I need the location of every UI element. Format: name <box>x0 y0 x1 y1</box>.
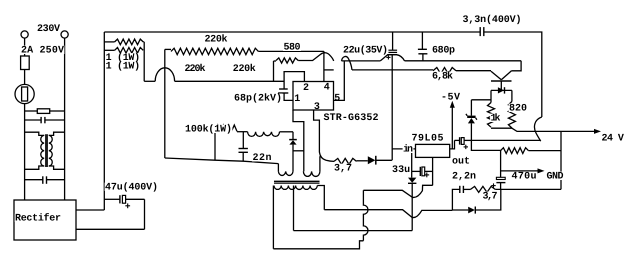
wire AC L rail <box>24 38 26 56</box>
diode snubber <box>289 139 297 141</box>
svg-text:47u(400V): 47u(400V) <box>105 182 158 194</box>
wire zener bottom drop <box>471 140 500 150</box>
resistor 6,8k <box>433 68 456 74</box>
wire pin5 <box>334 61 345 101</box>
transformer secondary <box>274 186 317 190</box>
wire comp row <box>342 60 381 62</box>
capacitor 68p 2kV <box>279 88 288 90</box>
svg-text:3,3n(400V): 3,3n(400V) <box>463 14 522 26</box>
svg-text:33u: 33u <box>392 165 410 176</box>
svg-text:68p(2kV): 68p(2kV) <box>234 93 282 105</box>
resistor 3,7 right <box>463 188 470 190</box>
resistor filter (box) <box>25 110 38 112</box>
diode in net <box>368 156 376 164</box>
resistor 3,7 left <box>334 158 357 164</box>
label 580 <box>283 43 301 51</box>
wire secondary left end <box>272 186 274 249</box>
capacitor 680p <box>421 32 423 49</box>
wire 47u return <box>144 199 146 229</box>
arrow -5V <box>450 101 455 108</box>
label 33u <box>392 165 411 173</box>
arrow GND <box>538 168 545 173</box>
capacitor X2 <box>25 179 43 181</box>
wire AC N rail <box>64 38 66 200</box>
wire in net <box>392 148 416 150</box>
wire 22n top lead <box>242 132 244 149</box>
label 2A 250V <box>21 46 65 54</box>
wire top bus right <box>484 32 542 117</box>
wire row2 <box>324 210 452 218</box>
wire AC L rail lower <box>24 104 26 200</box>
capacitor 33u <box>412 170 421 172</box>
wire 100k to coil <box>237 131 248 133</box>
svg-text:2: 2 <box>303 83 309 94</box>
wire row2 diode lead <box>452 209 468 211</box>
svg-text:100k(1W): 100k(1W) <box>185 124 232 136</box>
svg-text:3,7: 3,7 <box>483 192 498 203</box>
wire pin1 staircase <box>293 110 304 171</box>
svg-text:1: 1 <box>294 94 300 105</box>
label 220k top <box>204 35 228 43</box>
transistor Q1 <box>491 71 501 79</box>
choke CM core <box>45 134 47 167</box>
wire out stub <box>450 140 455 149</box>
wire 100k left lead <box>214 131 216 160</box>
wire in vert <box>411 149 413 172</box>
resistor 1 (1W) upper <box>104 41 114 43</box>
wire 22u to in net <box>391 55 393 161</box>
label 24 V <box>601 134 624 142</box>
label 3,7 right <box>482 192 498 200</box>
label STR-G6352 <box>323 113 379 121</box>
wire riser <box>363 190 368 241</box>
wire 33u gnd vert <box>432 157 434 185</box>
resistor 220k x2 <box>171 48 258 54</box>
wire snubber right <box>495 188 561 190</box>
svg-text:22n: 22n <box>253 153 272 164</box>
svg-text:470u: 470u <box>512 172 537 183</box>
svg-text:-5V: -5V <box>441 93 460 104</box>
resistor 1k <box>488 103 495 128</box>
wire 22n bottom lead <box>242 152 244 161</box>
svg-text:220k: 220k <box>233 63 256 75</box>
transformer core <box>274 180 320 182</box>
wire DC+ rail <box>103 32 105 210</box>
inductor coil <box>248 132 280 137</box>
svg-text:220k: 220k <box>185 63 206 75</box>
label 220k mid a <box>184 64 206 72</box>
label 79L05 <box>411 134 444 142</box>
wire diode branch <box>293 150 304 152</box>
svg-text:230V: 230V <box>37 24 60 35</box>
choke CM top stubs <box>25 132 45 135</box>
capacitor X1 <box>25 119 41 121</box>
plus 470u <box>491 185 495 187</box>
capacitor 47u 400V <box>104 198 120 200</box>
resistor 100k 1W <box>215 125 237 131</box>
capacitor 2,2n <box>459 186 461 193</box>
svg-text:5: 5 <box>334 94 340 105</box>
label 3,3n(400V) <box>462 15 522 23</box>
svg-text:Rectifer: Rectifer <box>15 213 61 225</box>
svg-text:STR-G6352: STR-G6352 <box>324 113 379 124</box>
wire pin2 <box>284 72 304 89</box>
wire fuse to lamp <box>24 70 26 85</box>
label out <box>452 157 471 165</box>
wire loop sides <box>490 90 492 102</box>
svg-text:2A 250V: 2A 250V <box>21 46 64 57</box>
capacitor out elec <box>455 139 460 141</box>
wire 220k to pin4 <box>258 50 324 52</box>
wire row2 right <box>475 189 501 210</box>
label GND <box>546 172 564 180</box>
svg-text:3,7: 3,7 <box>334 164 352 175</box>
wire primary R right lead <box>319 156 321 171</box>
resistor 820 <box>508 102 515 129</box>
svg-text:4: 4 <box>324 83 330 94</box>
transformer primary L <box>278 171 293 175</box>
wire R right join <box>143 42 144 81</box>
label 470u <box>511 172 537 180</box>
wire in row <box>376 159 392 161</box>
wire comp row b <box>405 60 522 62</box>
wire 220k corner <box>165 48 171 50</box>
wire coil to diode <box>280 131 294 133</box>
choke CM bottom stubs <box>25 166 45 169</box>
wire pin4 <box>323 51 325 81</box>
resistor row 150 <box>501 148 529 154</box>
plus out cap <box>464 146 468 148</box>
terminal AC L <box>21 31 28 38</box>
wire 580 to pin4 <box>298 53 334 61</box>
svg-text:6,8k: 6,8k <box>432 71 453 83</box>
wire 79L05 in diode drop <box>411 184 413 231</box>
plus 22u <box>386 56 390 58</box>
wire pin3 <box>314 110 334 161</box>
arrow 24V <box>594 129 601 134</box>
label 22n <box>252 153 272 161</box>
resistor 1 (1W) lower <box>104 49 114 51</box>
zener -5V <box>470 100 472 116</box>
svg-text:580: 580 <box>284 43 301 54</box>
wire hop rail <box>534 117 541 141</box>
wire out row <box>471 139 540 141</box>
svg-text:1 (1W): 1 (1W) <box>106 61 141 73</box>
wire row4 <box>273 241 363 249</box>
wire 580 left drop <box>273 61 275 81</box>
svg-text:820: 820 <box>509 104 527 115</box>
terminal AC N <box>61 31 68 38</box>
label 47u(400V) <box>105 183 159 191</box>
wire GND <box>501 170 538 172</box>
label Rectifer <box>15 214 62 222</box>
fuse F1 2A <box>21 56 30 70</box>
wire row1 <box>363 185 432 197</box>
svg-text:GND: GND <box>547 172 564 183</box>
svg-text:24 V: 24 V <box>602 134 624 145</box>
label 3,7 left <box>334 164 353 172</box>
wire row3 <box>294 230 413 232</box>
svg-text:680p: 680p <box>432 46 455 57</box>
label 1 (1W) a <box>105 53 140 61</box>
resistor 580 <box>274 60 277 62</box>
capacitor 470u <box>500 150 502 177</box>
wire secondary tap <box>293 186 295 231</box>
label 6,8k <box>432 72 454 80</box>
svg-text:out: out <box>452 157 470 168</box>
wire rectifier out+ <box>76 209 104 211</box>
label 820 <box>509 104 528 112</box>
rectifier box <box>14 200 76 240</box>
label -5V <box>441 93 461 101</box>
wire hop over 220k drop <box>155 68 174 82</box>
svg-text:79L05: 79L05 <box>412 134 444 145</box>
choke CM winding R <box>49 135 52 166</box>
label 680p <box>432 46 456 54</box>
label 2,2n <box>452 172 477 180</box>
op-amp U1 STR-G6352 box <box>293 82 334 111</box>
svg-text:3: 3 <box>314 102 320 113</box>
wire primary left lead <box>277 164 279 172</box>
wire bottoms join <box>491 128 595 131</box>
transformer primary R <box>303 171 320 176</box>
diode output lower <box>468 207 475 214</box>
label in <box>403 145 414 153</box>
wire secondary right end <box>317 186 324 210</box>
wire 6,8k to transistor <box>456 70 491 72</box>
wire 220k drop <box>164 49 166 158</box>
svg-text:22u(35V): 22u(35V) <box>343 45 388 57</box>
wire pin4 stub <box>324 69 334 71</box>
wire to 68p node <box>144 80 155 82</box>
label 22u(35V) <box>343 46 389 54</box>
svg-text:220k: 220k <box>205 34 228 46</box>
svg-text:2,2n: 2,2n <box>452 172 476 183</box>
label 230V <box>37 24 61 32</box>
label 68p(2kV) <box>234 94 283 102</box>
svg-text:1k: 1k <box>491 113 501 125</box>
label 100k(1W) <box>185 125 233 133</box>
wire 6,8k row <box>352 69 433 71</box>
diode 33u drop <box>411 171 413 177</box>
wire collector from bus <box>512 61 522 71</box>
label 1k <box>490 114 501 122</box>
wire 68p node run <box>175 80 285 82</box>
wire loop top <box>491 89 512 91</box>
capacitor 3,3n 400V <box>479 27 481 36</box>
wire rectifier out- <box>76 228 145 230</box>
wire 22u tent <box>380 55 404 61</box>
diode loop <box>498 87 504 93</box>
wire zener top <box>471 99 491 101</box>
wire top bus <box>104 31 480 33</box>
label 220k mid b <box>232 64 256 72</box>
wire comp hop pin5 <box>342 56 353 69</box>
capacitor 22u 35V <box>392 32 394 50</box>
lamp (bulb) <box>15 84 34 103</box>
plus 47u <box>125 205 130 207</box>
label 1 (1W) b <box>105 62 140 70</box>
regulator 79L05 box <box>416 144 450 157</box>
wire sloped feed <box>165 158 279 164</box>
capacitor 22n <box>239 148 248 150</box>
wire 2,2n lead <box>452 189 459 210</box>
wire pin1 <box>284 93 293 100</box>
choke CM winding L <box>41 135 44 166</box>
svg-text:in: in <box>403 144 413 156</box>
plus 33u <box>424 174 429 176</box>
wire 24V drop <box>560 131 562 189</box>
